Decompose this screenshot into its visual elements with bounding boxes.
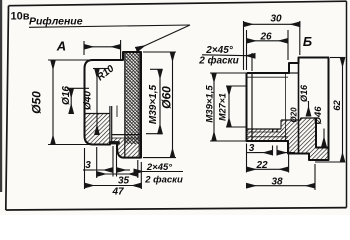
dim Ø60: [143, 52, 176, 158]
section hatch tube wall: [247, 129, 288, 141]
frame left border: [6, 6, 9, 210]
knurl band right line: [138, 52, 140, 158]
frame top border: [9, 1, 347, 6]
underline of 3: [83, 169, 94, 171]
svg-text:Ø16: Ø16: [299, 84, 309, 102]
bore M27 minor thin: [247, 131, 282, 133]
svg-text:А: А: [56, 39, 66, 54]
knurl band left line: [124, 52, 126, 158]
thread minor line M39: [112, 137, 141, 139]
svg-text:30: 30: [270, 14, 282, 25]
svg-text:Ø20: Ø20: [290, 107, 299, 123]
svg-text:Ø50: Ø50: [30, 91, 44, 114]
dim Ø16: [67, 88, 89, 113]
svg-text:3: 3: [85, 160, 91, 171]
thread minor top line: [247, 76, 289, 78]
intermediate hole edge: [281, 119, 301, 121]
dim O46 part B: [323, 129, 325, 147]
underline of 3 part B: [247, 152, 255, 154]
svg-text:62: 62: [332, 100, 343, 111]
bore step vertical double: [109, 106, 111, 144]
chamfer leader part A: [134, 171, 183, 173]
section hatch closed-end wall: [86, 114, 110, 145]
dim 62: [315, 58, 345, 163]
svg-text:38: 38: [271, 177, 283, 188]
chamfer ext line part B: [251, 53, 253, 71]
svg-text:Ø60: Ø60: [160, 86, 174, 109]
svg-text:10в: 10в: [11, 11, 30, 23]
chamfer leader part B: [202, 55, 255, 56]
svg-text:26: 26: [259, 32, 272, 43]
section hatch flange wall: [299, 118, 317, 160]
groove lines in bore: [272, 129, 274, 133]
svg-text:М39×1,5: М39×1,5: [205, 85, 216, 123]
svg-text:47: 47: [111, 187, 124, 198]
frame right border: [346, 1, 348, 207]
tube top continuation under collar: [289, 72, 299, 74]
svg-text:М39×1,5: М39×1,5: [148, 84, 159, 124]
part B outline lower: [247, 73, 329, 160]
dim 35 part A: [97, 147, 138, 178]
dim Ø40: [93, 69, 108, 135]
part B outline upper: [247, 58, 329, 148]
dim 26: [247, 30, 289, 70]
bore M27 major: [247, 128, 282, 130]
leader diagonal to knurl with arrow: [137, 25, 191, 50]
dim 3 part A: [94, 146, 130, 177]
thread end line: [285, 73, 287, 141]
section hatch collar wall: [281, 120, 299, 153]
scan page left dark edge: [0, 0, 2, 192]
hole O16 line: [301, 117, 316, 119]
dim M39x1.5 part B: [210, 73, 246, 141]
svg-text:2 фаски: 2 фаски: [198, 55, 239, 67]
svg-text:Ø46: Ø46: [313, 106, 324, 125]
section hatch flange foot: [117, 144, 140, 158]
thread major line M39: [112, 134, 141, 136]
svg-text:35: 35: [118, 176, 130, 187]
dim 3 part B: [255, 146, 295, 156]
dim M39x1.5 part A: [146, 69, 163, 133]
svg-text:Ø16: Ø16: [61, 86, 72, 105]
dim M27x1 part B: [226, 86, 247, 127]
wall bottom bar: [110, 141, 120, 144]
part A top width dimension (unlabeled): [84, 40, 121, 59]
dim 38: [247, 164, 316, 190]
dim 22: [247, 144, 289, 173]
svg-text:Ø40: Ø40: [83, 91, 94, 110]
bore thread depth face: [280, 120, 282, 129]
bore step at flange face: [300, 118, 302, 120]
frame bottom border: [6, 208, 347, 210]
leader underline of Рифление: [29, 25, 190, 27]
part A inner bore: hole edge Ø16: [85, 113, 110, 115]
dim 30: [244, 21, 300, 70]
part A outline: [85, 52, 142, 158]
dim 47 part A: [85, 148, 142, 189]
thread minor bottom line: [247, 136, 289, 138]
dim O16 part B: [308, 101, 310, 116]
svg-text:М27×1: М27×1: [218, 93, 228, 121]
svg-text:Б: Б: [303, 34, 312, 49]
section hatch rim under counterbore: [316, 148, 328, 160]
knurl band fill: [125, 53, 139, 144]
svg-text:R10: R10: [95, 63, 117, 83]
chamfer line left end: [251, 73, 253, 141]
section hatch thread wall strip: [112, 138, 140, 144]
flange left face line: [298, 58, 300, 154]
svg-text:2 фаски: 2 фаски: [144, 175, 183, 186]
dim Ø50: [48, 60, 93, 145]
svg-text:2×45°: 2×45°: [205, 45, 234, 56]
thread end short line: [116, 106, 118, 118]
svg-text:22: 22: [255, 160, 268, 171]
svg-text:Рифление: Рифление: [29, 16, 83, 28]
